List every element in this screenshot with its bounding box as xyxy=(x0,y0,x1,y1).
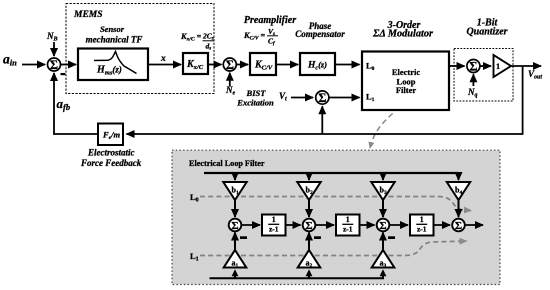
svg-text:Electrostatic: Electrostatic xyxy=(87,148,135,158)
svg-text:Σ: Σ xyxy=(231,220,238,232)
svg-text:Σ: Σ xyxy=(455,220,462,232)
svg-text:z-1: z-1 xyxy=(343,225,353,234)
svg-text:NB: NB xyxy=(46,31,58,43)
svg-text:Quantizer: Quantizer xyxy=(466,27,507,38)
svg-text:z-1: z-1 xyxy=(417,225,427,234)
svg-text:Electrical Loop Filter: Electrical Loop Filter xyxy=(189,159,265,168)
svg-text:2Cs: 2Cs xyxy=(202,32,214,42)
svg-text:Cf: Cf xyxy=(268,37,276,47)
svg-text:Force Feedback: Force Feedback xyxy=(80,158,142,168)
svg-text:BIST: BIST xyxy=(246,88,267,98)
svg-text:Filter: Filter xyxy=(396,85,417,95)
svg-text:KC/V =: KC/V = xyxy=(243,30,266,42)
svg-text:mechanical TF: mechanical TF xyxy=(86,35,143,45)
svg-text:MEMS: MEMS xyxy=(73,10,103,20)
svg-text:Fe/m: Fe/m xyxy=(102,130,120,142)
svg-text:1: 1 xyxy=(346,215,350,224)
svg-text:Electric: Electric xyxy=(392,67,421,77)
svg-text:Σ: Σ xyxy=(226,58,234,72)
svg-text:Kx/C =: Kx/C = xyxy=(180,31,202,43)
svg-text:ΣΔ Modulator: ΣΔ Modulator xyxy=(372,29,433,40)
svg-text:afb: afb xyxy=(57,96,71,112)
svg-text:ain: ain xyxy=(3,52,17,68)
svg-text:Σ: Σ xyxy=(305,220,312,232)
svg-text:Σ: Σ xyxy=(318,91,326,105)
svg-text:Preamplifier: Preamplifier xyxy=(244,15,296,26)
svg-text:Σ: Σ xyxy=(50,58,58,72)
svg-text:Nq: Nq xyxy=(467,87,478,99)
svg-text:Ne: Ne xyxy=(225,85,236,97)
svg-text:Vt: Vt xyxy=(279,91,287,103)
svg-text:1: 1 xyxy=(496,62,500,71)
svg-text:Vout: Vout xyxy=(528,69,542,81)
svg-text:Sensor: Sensor xyxy=(100,24,125,34)
svg-text:ds: ds xyxy=(206,42,212,52)
svg-text:x: x xyxy=(160,54,166,64)
svg-text:1: 1 xyxy=(272,215,276,224)
svg-text:Σ: Σ xyxy=(379,220,386,232)
svg-text:Σ: Σ xyxy=(469,59,477,73)
svg-text:1: 1 xyxy=(420,215,424,224)
svg-text:z-1: z-1 xyxy=(269,225,279,234)
svg-text:Excitation: Excitation xyxy=(236,99,274,108)
svg-text:Compensator: Compensator xyxy=(295,29,345,39)
